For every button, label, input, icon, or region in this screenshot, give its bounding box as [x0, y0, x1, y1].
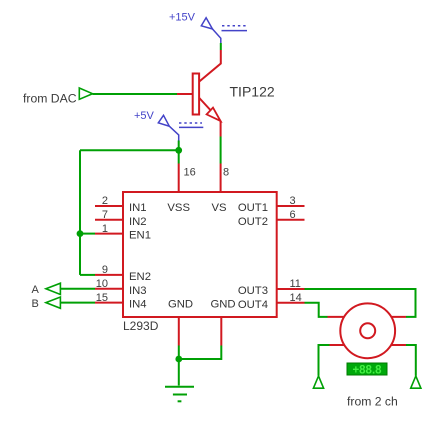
- svg-text:15: 15: [96, 292, 108, 304]
- svg-text:10: 10: [96, 278, 108, 290]
- svg-text:EN1: EN1: [129, 230, 151, 242]
- svg-text:VSS: VSS: [167, 202, 190, 214]
- svg-text:16: 16: [184, 166, 196, 178]
- svg-text:+88.8: +88.8: [352, 365, 382, 377]
- svg-text:L293D: L293D: [123, 319, 159, 333]
- svg-text:OUT1: OUT1: [238, 202, 268, 214]
- svg-text:IN1: IN1: [129, 202, 147, 214]
- svg-text:IN3: IN3: [129, 285, 147, 297]
- svg-text:+5V: +5V: [134, 110, 155, 122]
- svg-text:11: 11: [290, 278, 301, 290]
- svg-text:1: 1: [102, 223, 108, 235]
- svg-text:8: 8: [223, 166, 229, 178]
- svg-text:9: 9: [102, 264, 108, 276]
- svg-text:GND: GND: [210, 299, 235, 311]
- svg-text:EN2: EN2: [129, 271, 151, 283]
- svg-text:IN4: IN4: [129, 299, 147, 311]
- svg-text:3: 3: [290, 195, 296, 207]
- svg-text:TIP122: TIP122: [230, 84, 275, 100]
- svg-text:from DAC: from DAC: [23, 92, 77, 106]
- svg-text:IN2: IN2: [129, 216, 147, 228]
- svg-text:OUT4: OUT4: [238, 299, 268, 311]
- svg-text:14: 14: [290, 292, 302, 304]
- svg-text:7: 7: [102, 209, 108, 221]
- svg-text:B: B: [32, 298, 39, 310]
- svg-text:GND: GND: [168, 299, 193, 311]
- svg-text:from 2 ch: from 2 ch: [347, 395, 398, 409]
- svg-text:6: 6: [290, 209, 296, 221]
- svg-text:VS: VS: [211, 202, 227, 214]
- svg-text:OUT2: OUT2: [238, 216, 268, 228]
- svg-text:2: 2: [102, 195, 108, 207]
- svg-text:OUT3: OUT3: [238, 285, 268, 297]
- svg-text:A: A: [32, 284, 40, 296]
- svg-text:+15V: +15V: [169, 12, 196, 24]
